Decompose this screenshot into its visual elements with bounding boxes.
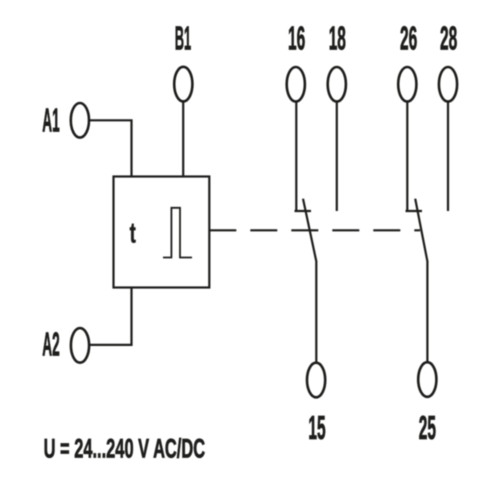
svg-text:A2: A2 bbox=[42, 326, 59, 363]
svg-text:t: t bbox=[130, 218, 136, 250]
svg-text:U = 24...240 V AC/DC: U = 24...240 V AC/DC bbox=[44, 434, 206, 464]
svg-text:A1: A1 bbox=[42, 101, 59, 138]
svg-text:26: 26 bbox=[400, 20, 417, 57]
svg-text:25: 25 bbox=[419, 409, 436, 446]
svg-text:18: 18 bbox=[329, 20, 346, 57]
svg-text:B1: B1 bbox=[175, 19, 191, 56]
svg-text:28: 28 bbox=[440, 20, 457, 57]
svg-text:16: 16 bbox=[288, 20, 305, 57]
svg-text:15: 15 bbox=[308, 409, 325, 446]
